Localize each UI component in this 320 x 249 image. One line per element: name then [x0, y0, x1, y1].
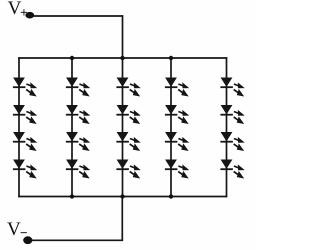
LED string3 row4 — [116, 160, 139, 178]
wire string 3 vertical — [122, 58, 124, 197]
LED string4 row4 — [165, 160, 188, 178]
LED string3 row3 — [116, 133, 139, 151]
junction top bus / string 3 — [120, 56, 124, 60]
LED string3 row1 — [116, 78, 139, 96]
LED string1 row3 — [13, 133, 36, 151]
junction bottom bus / string 3 — [120, 194, 124, 198]
wire string 1 vertical — [18, 57, 20, 197]
LED string1 row1 — [13, 78, 36, 96]
LED string2 row1 — [66, 78, 89, 96]
LED string2 row2 — [66, 106, 89, 124]
LED string5 row4 — [220, 160, 243, 178]
LED string4 row1 — [165, 78, 188, 96]
junction top bus / string 2 — [70, 56, 74, 60]
junction top bus / string 4 — [169, 56, 173, 60]
wire top bus — [18, 57, 227, 59]
wire bottom bus — [18, 196, 227, 198]
wire V- horizontal — [28, 239, 123, 241]
LED string4 row2 — [165, 106, 188, 124]
V- terminal dot — [23, 236, 32, 244]
LED string5 row2 — [220, 106, 243, 124]
LED string1 row4 — [13, 160, 36, 178]
V+ terminal dot — [25, 12, 34, 19]
wire V+ horizontal — [30, 15, 123, 17]
junction bottom bus / string 2 — [70, 194, 74, 198]
LED string5 row1 — [220, 78, 243, 96]
wire string 5 vertical — [226, 57, 228, 197]
LED string2 row3 — [66, 133, 89, 151]
wire string 4 vertical — [170, 58, 172, 197]
wire V- vertical feed — [121, 197, 123, 242]
wire string 2 vertical — [71, 58, 73, 197]
LED string3 row2 — [116, 106, 139, 124]
LED string1 row2 — [13, 106, 36, 124]
LED string4 row3 — [165, 133, 188, 151]
svg-text:V: V — [7, 219, 21, 240]
LED string5 row3 — [220, 133, 243, 151]
wire V+ vertical feed — [122, 15, 124, 58]
LED string2 row4 — [66, 160, 89, 178]
junction bottom bus / string 4 — [169, 194, 173, 198]
